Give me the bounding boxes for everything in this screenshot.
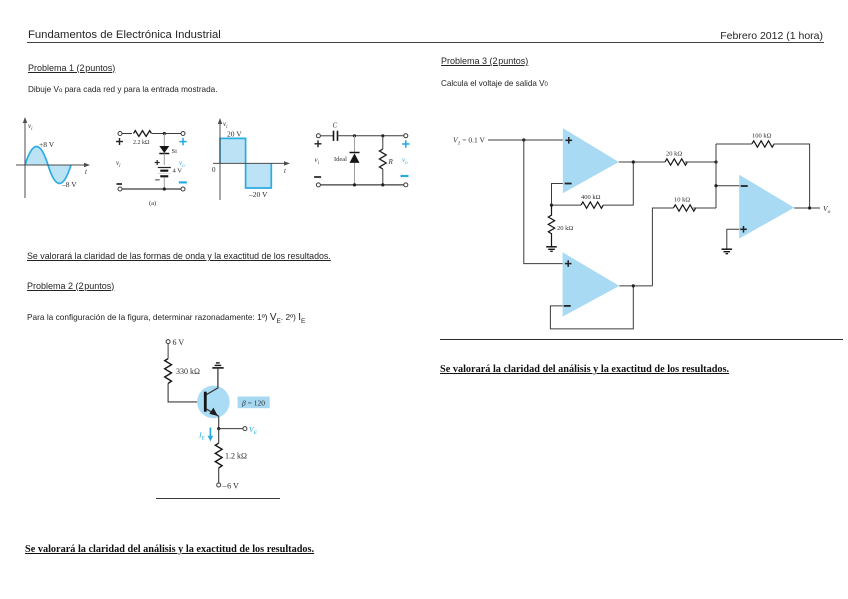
- capacitor C: [334, 131, 338, 141]
- svg-text:vi: vi: [28, 122, 33, 132]
- op-amp U3: [739, 175, 794, 239]
- svg-text:vi: vi: [116, 159, 121, 169]
- FIGURE 3: square input waveform: [208, 112, 296, 204]
- square wave trace: [220, 138, 271, 188]
- U1 output wire: [619, 161, 665, 163]
- minus sign input: [117, 183, 123, 185]
- wire node to diode: [163, 134, 165, 147]
- wire summing node to U3 - input: [716, 185, 740, 187]
- header right date: [720, 30, 823, 42]
- wire node A to diode: [354, 136, 356, 153]
- svg-text:20 kΩ: 20 kΩ: [666, 151, 682, 158]
- Problema 3 closing note bold: [440, 364, 729, 375]
- svg-text:+8 V: +8 V: [39, 140, 55, 149]
- U1 output junction dot: [632, 160, 635, 163]
- minus sign output blue: [401, 175, 409, 177]
- +6V supply terminal: [166, 340, 170, 344]
- bottom-left terminal: [316, 183, 320, 187]
- wire node to RE: [218, 429, 220, 444]
- svg-text:20 kΩ: 20 kΩ: [557, 225, 573, 232]
- resistor 20 kOhm to ground: [548, 205, 554, 247]
- Problema 2 closing note bold: [25, 544, 314, 555]
- op-amp U2: [563, 252, 620, 316]
- FIGURE 5: BJT emitter-follower network: [150, 330, 285, 495]
- wire RE to -6V: [218, 468, 220, 483]
- wire capacitor to node A: [338, 135, 406, 137]
- svg-text:VE: VE: [249, 425, 258, 436]
- wire node B to resistor: [382, 136, 384, 149]
- positive pulse filled: [220, 138, 246, 163]
- svg-text:– 6 V: – 6 V: [222, 482, 240, 491]
- bottom rail wire: [320, 184, 403, 186]
- Problema 2 statement: [27, 312, 305, 325]
- svg-text:330 kΩ: 330 kΩ: [176, 367, 200, 376]
- svg-text:IE: IE: [198, 431, 206, 442]
- horizontal axis: [16, 163, 90, 167]
- FIGURE 4: clamper network: [312, 118, 414, 198]
- ground symbol U1 divider: [546, 247, 557, 252]
- wire U2 output up to 10k: [652, 208, 673, 286]
- wire to VE terminal: [219, 428, 243, 430]
- minus sign output blue: [179, 181, 187, 183]
- transistor Q1 base bar: [204, 392, 207, 412]
- diode D1 Si: [159, 146, 169, 154]
- horizontal axis: [213, 161, 290, 165]
- summing node junction dot: [714, 160, 717, 163]
- Problema 1 statement: [28, 85, 218, 94]
- resistor RB 330 kOhm: [165, 359, 172, 384]
- wire 10k to summing node: [693, 207, 716, 209]
- Problema 3 statement: [441, 79, 548, 88]
- wire to node: [152, 133, 183, 135]
- node B junction dot: [381, 134, 384, 137]
- vertical axis: [23, 117, 27, 198]
- wire 20k to summing node: [685, 161, 716, 163]
- svg-text:0: 0: [212, 166, 216, 174]
- svg-text:Ideal: Ideal: [334, 156, 347, 163]
- svg-text:C: C: [333, 122, 338, 130]
- bottom junction dot A: [353, 183, 356, 186]
- resistor 2.2 kOhm: [134, 131, 152, 137]
- emitter node dot: [217, 427, 220, 430]
- svg-text:vi: vi: [315, 156, 320, 166]
- FIGURE 6: three op-amp network: [440, 120, 840, 335]
- bottom-right terminal: [404, 183, 408, 187]
- battery plus sign: [155, 160, 160, 165]
- svg-text:1.2 kΩ: 1.2 kΩ: [225, 452, 247, 461]
- wire diode to battery: [163, 154, 165, 166]
- figure 5 baseline rule: [156, 498, 280, 499]
- wire resistor to bottom rail: [382, 169, 384, 185]
- sine wave filled area: [25, 146, 71, 183]
- wire V1 node down to U2: [524, 140, 563, 264]
- emitter arrowhead: [209, 408, 217, 416]
- bottom rail wire: [122, 188, 181, 190]
- plus sign output blue: [179, 138, 186, 145]
- wire to capacitor: [320, 135, 333, 137]
- beta label box: [238, 397, 270, 409]
- svg-text:10 kΩ: 10 kΩ: [674, 197, 690, 204]
- svg-text:–20 V: –20 V: [248, 190, 268, 199]
- output junction dot: [808, 206, 811, 209]
- emitter wire diagonal: [206, 409, 219, 416]
- wire U1 inverting input: [552, 184, 563, 206]
- wire 100k to output node: [774, 144, 810, 208]
- Problema 2 heading: [27, 281, 114, 291]
- resistor 10 kOhm: [673, 205, 695, 211]
- figure 6 baseline rule: [440, 339, 843, 340]
- node A junction dot: [353, 134, 356, 137]
- plus sign input: [116, 138, 123, 145]
- wire node to 400k: [552, 204, 582, 206]
- bottom junction dot B: [381, 183, 384, 186]
- svg-text:β = 120: β = 120: [241, 398, 265, 407]
- resistor 400 kOhm: [581, 202, 603, 208]
- FIGURE 2: series clipper network: [112, 122, 204, 210]
- collector wire to ground: [206, 368, 218, 395]
- resistor 100 kOhm: [752, 141, 774, 147]
- U2 output junction dot: [632, 284, 635, 287]
- minus sign input: [314, 176, 321, 178]
- header left title: [28, 29, 221, 41]
- bottom-right terminal: [181, 187, 185, 191]
- -6V supply terminal: [217, 483, 221, 487]
- bottom rail junction dot: [163, 187, 166, 190]
- wire diode to bottom rail: [354, 163, 356, 185]
- IE current arrow blue: [208, 428, 214, 442]
- node V1 junction dot: [522, 138, 525, 141]
- wire resistor to base corner: [168, 383, 204, 402]
- output terminal top-right: [181, 132, 185, 136]
- svg-text:R: R: [388, 158, 394, 166]
- svg-text:–8 V: –8 V: [61, 180, 77, 189]
- ground symbol U3: [722, 249, 733, 254]
- diode ideal (pointing up): [350, 153, 360, 163]
- svg-text:vi: vi: [223, 120, 228, 130]
- emitter wire down: [218, 416, 220, 428]
- svg-text:100 kΩ: 100 kΩ: [752, 133, 772, 140]
- input terminal top-left: [316, 134, 320, 138]
- wire 400k to U1 output: [603, 162, 633, 205]
- wire top-left: [122, 133, 132, 135]
- svg-text:vo: vo: [402, 156, 408, 166]
- negative pulse filled: [246, 163, 272, 188]
- U3 output wire: [794, 207, 820, 209]
- ground symbol collector: [212, 363, 223, 368]
- FIGURE 1: sine input waveform: [10, 112, 110, 204]
- svg-text:2.2 kΩ: 2.2 kΩ: [133, 140, 150, 146]
- transistor body circle: [197, 386, 230, 419]
- vertical axis: [218, 118, 222, 200]
- feedback node junction dot: [550, 204, 553, 207]
- resistor 20 kOhm series: [665, 159, 687, 165]
- svg-text:t: t: [85, 168, 88, 176]
- svg-text:(a): (a): [149, 200, 156, 207]
- svg-text:Vo: Vo: [823, 204, 831, 215]
- svg-text:Si: Si: [172, 148, 178, 155]
- wire to 100k feedback: [716, 143, 752, 145]
- resistor RE 1.2 kOhm: [215, 443, 222, 468]
- summing node vertical wire: [715, 144, 717, 208]
- battery 4 V: [158, 168, 171, 177]
- op-amp U1: [563, 128, 619, 193]
- plus sign output blue: [402, 140, 409, 147]
- resistor R vertical: [379, 149, 386, 169]
- wire battery to bottom rail: [163, 177, 165, 189]
- plus sign input: [315, 140, 322, 147]
- input terminal top-left: [118, 132, 122, 136]
- wire supply to resistor: [167, 344, 169, 359]
- svg-text:20 V: 20 V: [227, 130, 242, 139]
- Problema 1 heading: [28, 63, 115, 73]
- U2 output wire: [619, 285, 652, 287]
- node junction dot: [163, 132, 166, 135]
- svg-text:4 V: 4 V: [173, 168, 183, 175]
- VE terminal: [243, 427, 247, 431]
- svg-text:6 V: 6 V: [173, 338, 185, 347]
- Problema 3 heading: [441, 56, 528, 66]
- wire V1 to op-amp U1 + input: [488, 139, 564, 141]
- header rule: [27, 42, 824, 44]
- Problema 1 closing note: [27, 251, 331, 261]
- svg-text:t: t: [284, 167, 287, 175]
- battery minus sign: [155, 179, 160, 181]
- bottom-left terminal: [118, 187, 122, 191]
- U3 + input wire to ground: [727, 229, 739, 249]
- svg-text:V1 = 0.1 V: V1 = 0.1 V: [453, 136, 485, 147]
- junction dot at - input: [714, 184, 717, 187]
- U2 feedback wire: [550, 286, 633, 329]
- svg-text:400 kΩ: 400 kΩ: [581, 194, 601, 201]
- output terminal top-right: [404, 134, 408, 138]
